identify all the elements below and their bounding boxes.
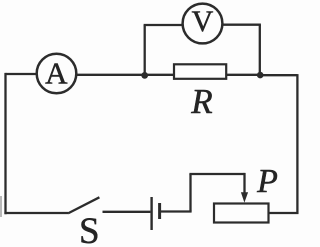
battery long plate (positive) (150, 197, 152, 230)
svg-text:P: P (256, 163, 278, 200)
wire riser vertical (189, 174, 191, 212)
svg-text:A: A (45, 56, 68, 91)
rheostat wiper arrow shaft (243, 173, 245, 194)
wire left junction to resistor (145, 74, 174, 76)
battery short plate (negative) (158, 203, 161, 219)
rheostat P body (214, 204, 269, 223)
wire voltmeter loop left vertical (144, 25, 146, 75)
ammeter A (37, 54, 77, 94)
voltmeter V (183, 4, 223, 44)
rheostat wiper arrowhead (241, 192, 248, 202)
wire ammeter to left junction (77, 74, 146, 76)
wire left vertical (4, 73, 6, 214)
wire right vertical (296, 74, 298, 214)
node right junction dot (257, 72, 264, 79)
wire voltmeter loop right horizontal (222, 24, 261, 26)
wire voltmeter loop right vertical (259, 25, 261, 75)
wire voltmeter loop left horizontal (144, 24, 183, 26)
wire switch to battery (103, 211, 151, 213)
wire riser top horizontal (189, 173, 244, 175)
svg-text:S: S (79, 211, 100, 247)
wire battery to riser (161, 210, 192, 212)
resistor R (174, 64, 226, 79)
switch S blade (68, 197, 99, 213)
wire resistor to right junction (226, 74, 260, 76)
node left junction dot (141, 72, 148, 79)
svg-text:R: R (190, 82, 212, 121)
wire bottom-right to rheostat (269, 212, 299, 214)
scan smudge left edge (0, 196, 2, 217)
wire right junction to top-right corner (260, 74, 297, 76)
wire bottom from left corner to switch (4, 212, 68, 214)
svg-text:V: V (192, 5, 214, 38)
wire top-left horizontal (6, 73, 38, 75)
